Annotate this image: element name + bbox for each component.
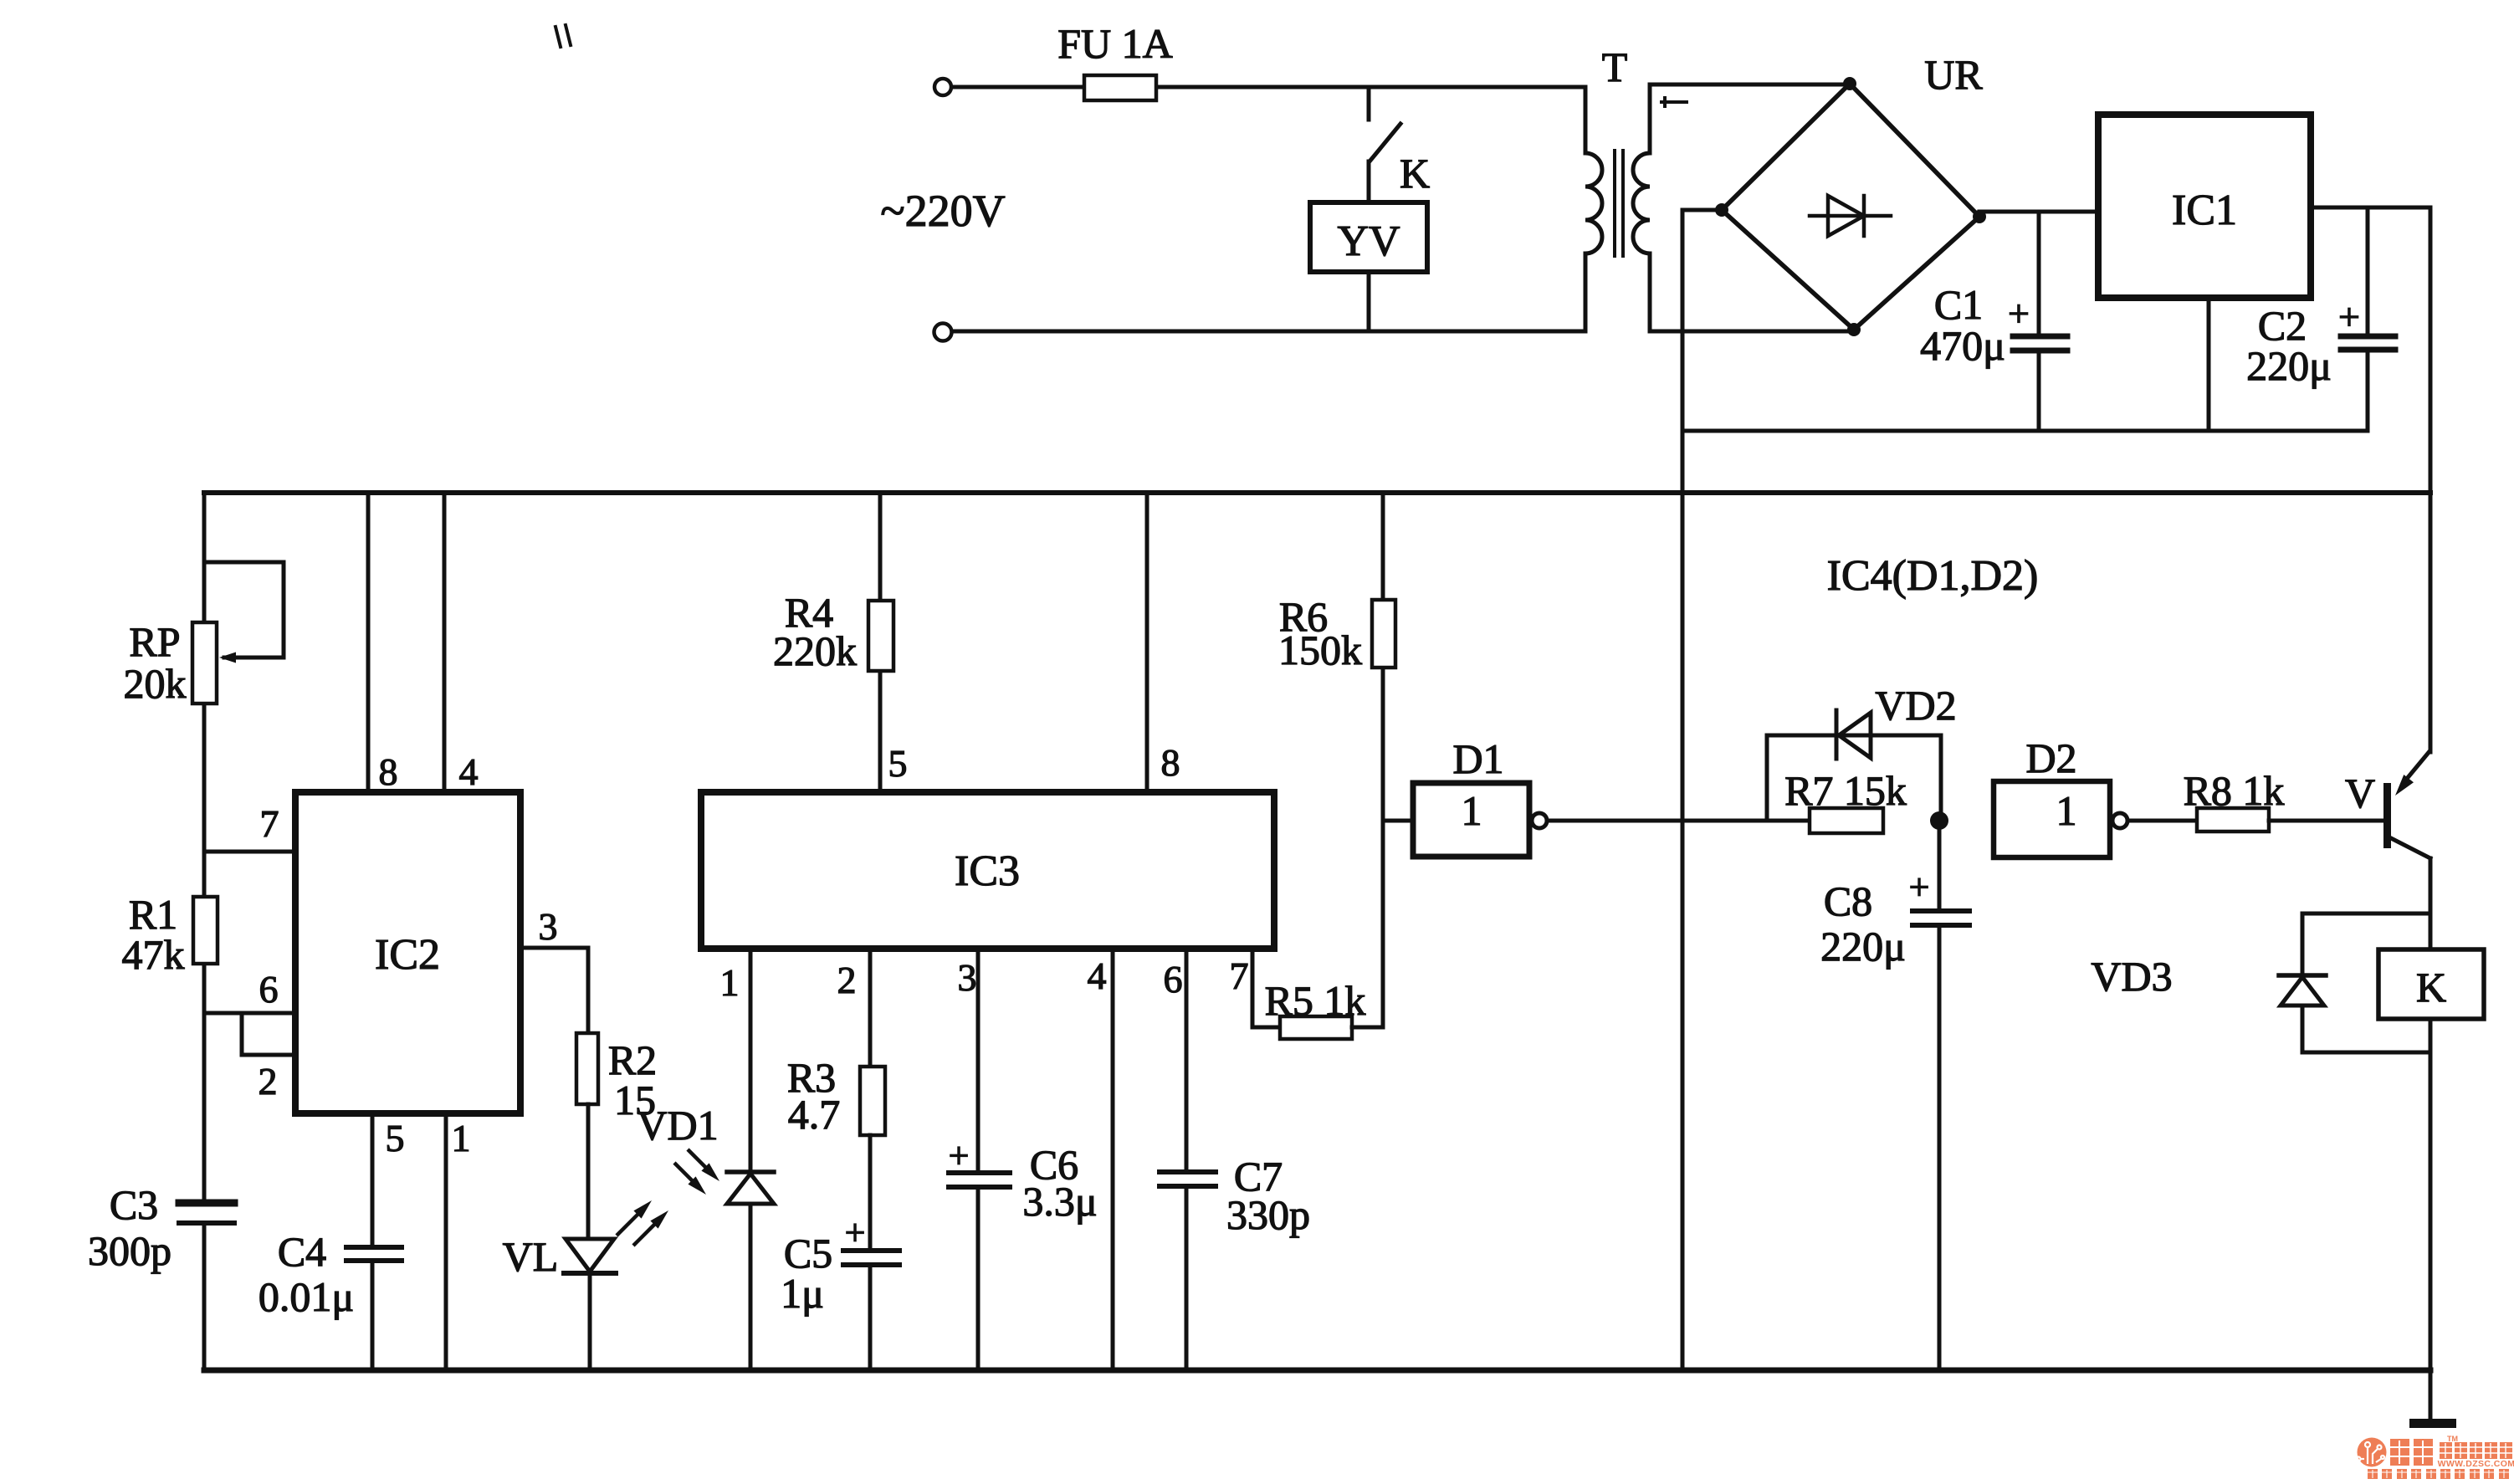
svg-text:220μ: 220μ [1820, 923, 1906, 970]
svg-text:~220V: ~220V [880, 186, 1005, 236]
svg-text:IC1: IC1 [2172, 187, 2237, 234]
svg-text:YV: YV [1337, 217, 1400, 265]
svg-text:4.7: 4.7 [788, 1091, 841, 1138]
svg-text:1: 1 [452, 1117, 471, 1159]
svg-text:7: 7 [260, 802, 279, 845]
svg-text:IC4(D1,D2): IC4(D1,D2) [1827, 552, 2039, 600]
svg-text:5: 5 [888, 742, 908, 785]
svg-text:2: 2 [837, 959, 857, 1001]
svg-text:300p: 300p [88, 1227, 172, 1274]
svg-text:D1: D1 [1452, 735, 1503, 782]
svg-text:+: + [2008, 292, 2030, 335]
svg-text:220μ: 220μ [2246, 342, 2332, 389]
svg-text:R7 15k: R7 15k [1784, 767, 1907, 814]
svg-text:V: V [2345, 770, 2375, 816]
svg-text:IC2: IC2 [375, 931, 440, 979]
svg-text:C8: C8 [1824, 878, 1872, 924]
svg-text:VD2: VD2 [1875, 682, 1956, 729]
svg-text:470μ: 470μ [1920, 322, 2005, 369]
svg-text:VL: VL [503, 1233, 559, 1280]
svg-text:3: 3 [958, 956, 977, 999]
svg-text:C4: C4 [278, 1228, 326, 1275]
svg-text:RP: RP [129, 618, 180, 665]
svg-text:8: 8 [379, 750, 398, 793]
svg-text:3.3μ: 3.3μ [1022, 1178, 1097, 1225]
svg-text:R8 1k: R8 1k [2184, 767, 2285, 814]
svg-text:TM: TM [2447, 1435, 2458, 1443]
svg-text:2: 2 [259, 1060, 278, 1103]
svg-text:C3: C3 [110, 1181, 158, 1228]
svg-text:1: 1 [720, 961, 740, 1004]
svg-text:FU 1A: FU 1A [1057, 20, 1173, 67]
svg-text:D2: D2 [2025, 734, 2076, 781]
svg-text:+: + [2338, 295, 2360, 338]
svg-text:1: 1 [2056, 787, 2077, 834]
svg-text:+: + [845, 1212, 866, 1253]
svg-text:IC3: IC3 [955, 847, 1020, 895]
svg-text:VD3: VD3 [2091, 953, 2172, 1000]
svg-text:3: 3 [539, 905, 558, 948]
svg-text:WWW.DZSC.COM: WWW.DZSC.COM [2438, 1459, 2514, 1469]
svg-text:UR: UR [1924, 51, 1983, 98]
svg-text:8: 8 [1161, 741, 1180, 784]
svg-text:1: 1 [1462, 787, 1482, 834]
svg-text:K: K [2416, 964, 2446, 1011]
svg-text:6: 6 [259, 968, 279, 1011]
svg-text:330p: 330p [1226, 1191, 1310, 1238]
svg-text:+: + [1909, 867, 1930, 908]
svg-text:R5 1k: R5 1k [1265, 977, 1366, 1024]
svg-text:47k: 47k [122, 931, 185, 978]
svg-text:C1: C1 [1934, 281, 1983, 328]
svg-text:7: 7 [1230, 954, 1249, 997]
svg-text:150k: 150k [1278, 627, 1362, 673]
svg-text:20k: 20k [124, 660, 187, 707]
svg-text:VD1: VD1 [637, 1102, 718, 1149]
svg-text:4: 4 [459, 750, 479, 793]
svg-text:K: K [1400, 150, 1430, 197]
svg-text:1μ: 1μ [781, 1270, 824, 1317]
svg-text:+: + [949, 1135, 970, 1176]
svg-text:5: 5 [386, 1117, 405, 1159]
svg-text:220k: 220k [773, 627, 857, 674]
svg-text:T: T [1602, 43, 1628, 90]
svg-text:4: 4 [1088, 954, 1107, 997]
svg-text:0.01μ: 0.01μ [259, 1273, 354, 1320]
svg-text:6: 6 [1164, 958, 1183, 1000]
